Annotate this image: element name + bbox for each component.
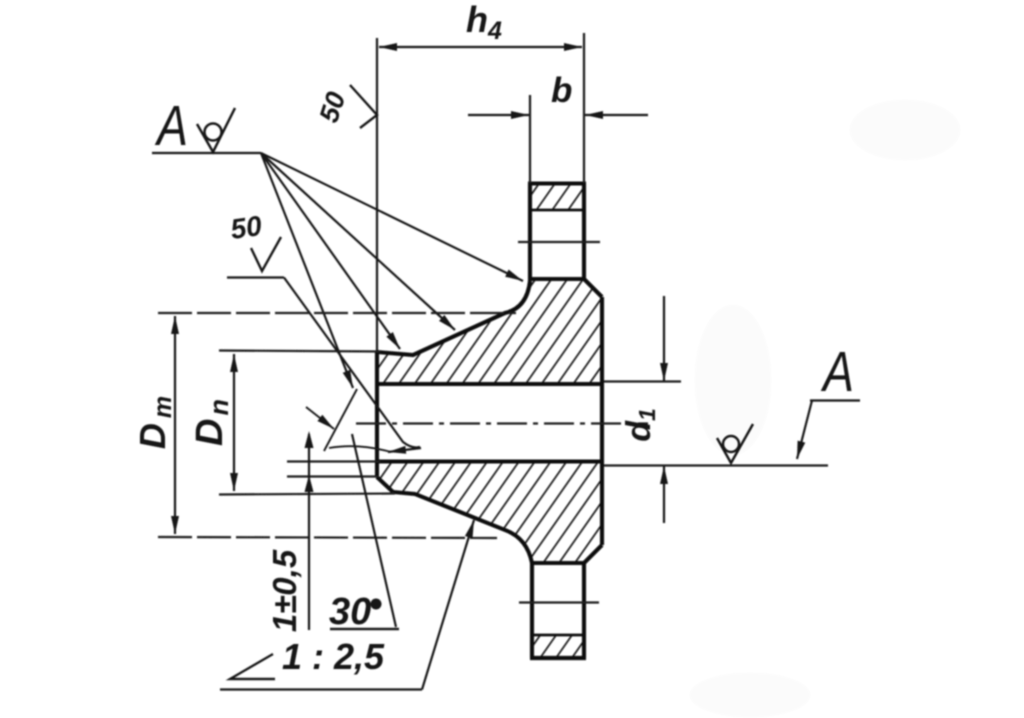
lower bolt hole axis mark: [519, 601, 599, 603]
tick symbol mid: [251, 237, 281, 271]
svg-text:d1: d1: [620, 408, 660, 442]
bore bottom line: [379, 459, 602, 463]
dimension line b left part: [468, 114, 529, 116]
svg-text:b: b: [551, 71, 572, 110]
shelf of 50 mid: [227, 276, 284, 278]
svg-text:50: 50: [229, 210, 265, 245]
lower rim bottom edge: [530, 656, 586, 660]
lower rim right edge: [582, 563, 586, 658]
d1 top extension line: [604, 380, 681, 382]
degree dot: [371, 599, 382, 610]
roughness mark 50 at h4 extension: [350, 85, 377, 128]
upper rim left edge: [528, 184, 532, 282]
upper bolt hole bottom face: [530, 277, 584, 281]
d1 dimension line lower: [663, 466, 665, 523]
upper bolt hole axis mark: [518, 241, 600, 243]
d1 dimension line upper: [663, 296, 665, 381]
extension line upper of 1 plus-minus 0.5: [287, 460, 380, 462]
svg-text:30: 30: [329, 591, 371, 633]
extension line lower of 1 plus-minus 0.5: [287, 475, 379, 477]
svg-text:1±0,5: 1±0,5: [266, 549, 303, 632]
Dm top extension line: [158, 312, 516, 314]
leader arrow 4 steep: [261, 153, 353, 388]
lower rim hatband top line: [532, 634, 584, 637]
slope symbol: [230, 654, 275, 679]
dimension line Dm: [174, 316, 176, 534]
stray stroke crossing (scan): [324, 389, 357, 451]
hatch top band (flange rim above bolt hole): [530, 185, 584, 210]
svg-text:50: 50: [314, 88, 352, 126]
dimension line b right part: [585, 114, 648, 116]
underline shelf of slope callout: [220, 688, 422, 690]
centerline axis (dash-dot): [356, 422, 648, 424]
flange disc right face: [600, 297, 604, 545]
leader stem from 30 degrees: [352, 434, 396, 627]
bore top line: [377, 382, 602, 386]
upper rim top edge: [528, 181, 586, 185]
surface finish circle-tick left: [197, 108, 235, 152]
dimension line 1 plus-minus 0.5: [308, 434, 310, 630]
dimension line Dn: [233, 354, 235, 491]
leader arrow of slope callout to taper: [422, 520, 474, 690]
h4 left extension line: [376, 38, 378, 352]
Dn bottom extension line: [219, 494, 395, 495]
svg-text:A: A: [155, 94, 188, 158]
lower bolt hole top face: [532, 561, 584, 565]
hub bottom weld bevel: [377, 477, 393, 492]
small arrow at bore step pointing left: [388, 448, 421, 452]
upper rim hatband bottom line: [530, 209, 584, 212]
Dm bottom extension line: [158, 537, 497, 538]
leader arrow 1 to bolt face: [261, 153, 523, 281]
lower rim left edge: [530, 563, 534, 658]
svg-text:h4: h4: [466, 0, 502, 45]
arrow up at 477: [305, 475, 314, 492]
hatch main upper body: [377, 279, 602, 384]
curved tail near bore step: [329, 446, 391, 452]
leader from 50 mid to bore step: [284, 278, 420, 448]
lower chamfer of raised face: [584, 545, 602, 563]
leader arrow 3 to hub flat: [261, 153, 400, 349]
b left extension line: [529, 95, 531, 183]
arrow up at 434: [305, 431, 314, 448]
hub top profile (flat + taper + fillet): [377, 281, 530, 355]
d1 bottom extension line: [604, 464, 828, 466]
A leader shelf line: [152, 152, 261, 154]
A right leader arrow: [797, 401, 812, 460]
faint scan smudges: [690, 100, 960, 717]
svg-text:Dm: Dm: [132, 391, 177, 449]
A right shelf: [810, 399, 860, 401]
leader arrow 2 to taper: [261, 153, 455, 330]
surface finish circle-tick right: [717, 424, 753, 463]
hatch main lower body: [377, 462, 602, 564]
upper chamfer of raised face: [584, 279, 602, 297]
hub bottom profile (flat + taper + fillet): [393, 492, 532, 563]
dimension line h4: [379, 46, 582, 48]
Dn top extension line: [219, 351, 380, 352]
hub left face: [375, 352, 379, 477]
hatch bottom band (flange rim below bolt hole): [532, 635, 584, 656]
underline of 30 degrees: [330, 628, 399, 630]
svg-text:Dn: Dn: [189, 396, 234, 446]
small leader arrow near bore chamfer: [306, 407, 334, 429]
h4 right extension line: [583, 33, 585, 183]
upper rim right edge: [582, 184, 586, 280]
svg-text:A: A: [821, 340, 854, 404]
svg-text:1 : 2,5: 1 : 2,5: [282, 636, 385, 677]
